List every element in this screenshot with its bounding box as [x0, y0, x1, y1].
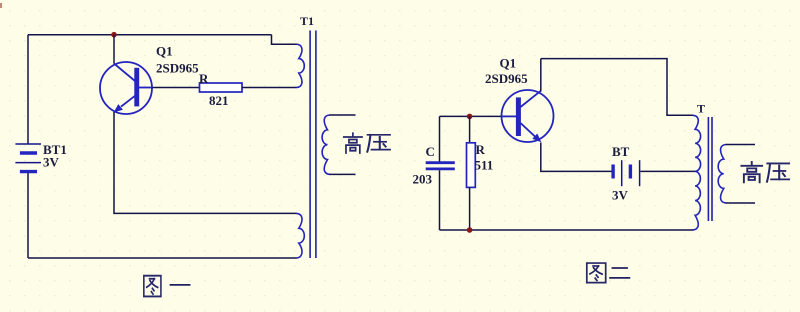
battery BT plate long [621, 160, 623, 186]
transistor Q1 base bar [134, 68, 139, 107]
wire: battery to transformer center tap [640, 170, 695, 172]
wire: resistor to transformer primary bottom [242, 87, 297, 89]
resistor R 821 body [200, 83, 243, 92]
svg-text:R: R [199, 71, 209, 86]
battery BT1 plate short thick [20, 170, 37, 173]
wire: T secondary top stub [726, 144, 755, 146]
wire: top rail [28, 34, 272, 36]
caption 图一 [144, 276, 161, 297]
transistor Q1 circle (fig2) [502, 90, 554, 142]
transistor Q1 circle [100, 62, 152, 114]
label 高压 (figure 2) [741, 162, 762, 182]
transistor Q1 base lead [139, 87, 153, 89]
transistor Q1 emitter stroke (fig2) [521, 123, 536, 137]
battery BT1 plate long [15, 162, 41, 164]
svg-text:2SD965: 2SD965 [156, 61, 199, 76]
transformer T secondary winding [718, 145, 726, 204]
transistor Q1 collector stroke (fig2) [521, 91, 541, 107]
resistor R 511 body [467, 143, 476, 188]
wire: top rail fig2 [541, 59, 694, 116]
wire: step to transformer primary top [272, 35, 297, 45]
transformer T1 primary winding [296, 44, 304, 87]
wire: left rail upper [27, 35, 29, 144]
wire: capacitor bottom branch [439, 170, 441, 230]
svg-text:Q1: Q1 [500, 56, 517, 71]
transformer T1 core [310, 31, 316, 259]
wire: T secondary bottom stub [726, 202, 755, 204]
wire: resistor bottom branch [469, 187, 471, 230]
battery BT plate long [639, 160, 641, 186]
wire: secondary top stub [329, 114, 355, 116]
wire: secondary bottom stub [329, 173, 355, 175]
node base junction dot [467, 114, 473, 120]
battery BT1 plate long [15, 143, 41, 145]
svg-text:C: C [426, 144, 435, 159]
wire: emitter down and across [114, 112, 297, 213]
transformer T1 secondary winding [322, 115, 330, 174]
svg-text:BT: BT [612, 144, 630, 159]
transformer T1 lower winding [296, 213, 304, 258]
wire: collector drop [113, 35, 115, 64]
wire: left rail lower [27, 172, 29, 258]
wire: emitter down (fig2) [541, 143, 612, 172]
transformer T core [708, 117, 712, 221]
svg-text:511: 511 [475, 158, 494, 173]
svg-text:Q1: Q1 [156, 44, 173, 59]
transistor Q1 base bar (fig2) [516, 97, 521, 136]
transistor Q1 emitter arrowhead [114, 104, 123, 112]
node junction dot [111, 32, 117, 38]
wire: capacitor top branch [439, 116, 441, 161]
svg-text:R: R [476, 142, 486, 157]
edge artifact mark [0, 3, 2, 8]
label 高压 (figure 1) [344, 133, 362, 153]
wire: bottom rail fig2 [440, 229, 694, 231]
node ground junction dot [467, 227, 473, 233]
wire: base to resistor [153, 87, 200, 89]
transformer T primary winding lower [693, 171, 701, 230]
transistor Q1 collector stroke [114, 64, 135, 82]
battery BT plate short thick [611, 165, 614, 179]
wire: collector up (fig2) [540, 59, 542, 92]
svg-text:203: 203 [413, 172, 433, 187]
caption 图二 [587, 263, 606, 283]
capacitor C 203 plates [426, 163, 455, 169]
svg-text:3V: 3V [43, 155, 60, 170]
svg-text:T1: T1 [300, 14, 314, 28]
wire: resistor top branch [469, 116, 471, 142]
transistor Q1 emitter stroke [121, 96, 135, 107]
wire: bottom rail [28, 257, 297, 259]
transistor Q1 base lead (fig2) [502, 115, 516, 117]
svg-text:3V: 3V [612, 188, 629, 203]
battery BT1 plate short thick [20, 151, 37, 154]
svg-text:2SD965: 2SD965 [485, 71, 528, 86]
wire: base node horizontal [440, 115, 502, 117]
battery BT plate short thick [629, 165, 632, 179]
transformer T primary winding upper [693, 115, 701, 171]
svg-text:T: T [697, 102, 705, 116]
transistor Q1 emitter arrowhead (fig2) [532, 134, 541, 143]
svg-text:821: 821 [209, 93, 229, 108]
